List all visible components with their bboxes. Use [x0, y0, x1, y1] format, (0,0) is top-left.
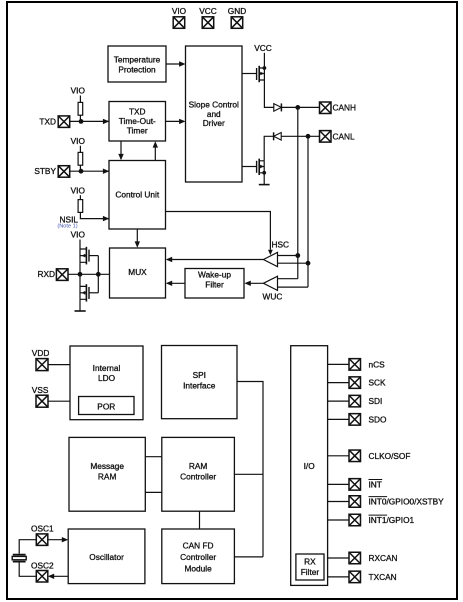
svg-text:VCC: VCC: [254, 43, 272, 53]
svg-text:SDO: SDO: [369, 415, 388, 425]
wire HSC out to MUX: [167, 259, 263, 261]
svg-text:VIO: VIO: [71, 136, 86, 146]
pin TXD: [58, 116, 69, 128]
block SPI Interface: [162, 346, 238, 419]
block Temperature Protection: [108, 46, 166, 82]
wire CU up to timer: [154, 143, 156, 161]
pin OSC2: [36, 571, 48, 583]
ground low-side driver: [259, 184, 270, 186]
pin CANH: [320, 102, 332, 114]
svg-text:VIO: VIO: [71, 185, 86, 195]
wire WUC input from CANL sense: [278, 286, 309, 288]
resistor R NSIL pullup: [78, 200, 83, 213]
wire VSS to LDO: [48, 400, 70, 402]
junction Q4 body tie: [262, 171, 266, 175]
svg-text:VDD: VDD: [32, 348, 50, 358]
junction CANH node: [295, 105, 300, 110]
diode D1: [274, 103, 282, 111]
diode D2: [274, 132, 282, 140]
pin VDD: [36, 359, 48, 371]
svg-text:Driver: Driver: [203, 118, 225, 128]
transistor Q2 NMOS RXD driver: [80, 284, 98, 301]
svg-text:POR: POR: [97, 401, 115, 411]
svg-text:I/O: I/O: [304, 461, 316, 471]
arrowhead hsc into MUX: [166, 257, 172, 262]
svg-text:Timer: Timer: [127, 125, 148, 135]
wire VIO to PMOS source: [79, 240, 81, 250]
arrowhead timer into slope control: [179, 119, 185, 124]
svg-text:RX: RX: [304, 557, 316, 567]
pin RXCAN: [349, 552, 361, 564]
wire R1 to TXD node: [79, 115, 81, 121]
wire slope to Q4 gate: [242, 166, 257, 168]
arrowhead into timer bottom: [153, 141, 158, 147]
svg-text:Controller: Controller: [180, 471, 216, 481]
block Control Unit: [109, 161, 166, 230]
overline INT1/GPIO1: [369, 514, 388, 516]
svg-text:CANL: CANL: [333, 131, 356, 141]
wire spi bus vertical: [237, 382, 263, 557]
block TXD Time-Out-Timer: [109, 102, 166, 142]
svg-text:Oscillator: Oscillator: [89, 552, 124, 562]
wire OSC1 to oscillator: [48, 539, 67, 541]
svg-text:OSC2: OSC2: [31, 560, 54, 570]
wire crystal to OSC2: [19, 562, 36, 576]
wire timer to slope control: [166, 120, 185, 122]
wire WUC input from CANH sense: [278, 278, 298, 280]
pin SDI: [349, 395, 361, 407]
wire oscillator to OSC2: [49, 575, 68, 577]
svg-text:Internal: Internal: [93, 363, 121, 373]
svg-text:RXD: RXD: [37, 269, 55, 279]
svg-text:OSC1: OSC1: [31, 524, 54, 534]
wire HSC input from CANH sense: [278, 255, 298, 257]
svg-text:VIO: VIO: [172, 6, 187, 16]
arrowhead wuf into MUX: [166, 281, 172, 286]
wire I/O to SDI: [328, 400, 349, 402]
wire Q4 source to ground: [263, 173, 265, 185]
wire timer down to CU: [120, 141, 122, 159]
svg-text:RAM: RAM: [98, 471, 117, 481]
svg-text:SPI: SPI: [193, 370, 206, 380]
svg-text:CLKO/SOF: CLKO/SOF: [369, 451, 411, 461]
svg-text:CANH: CANH: [333, 103, 357, 113]
wire CANL sense line: [307, 136, 309, 287]
block Oscillator: [68, 529, 145, 584]
pin INT: [349, 479, 361, 491]
svg-text:STBY: STBY: [34, 166, 56, 176]
junction RXD drain node: [78, 272, 83, 277]
wire I/O to INT0/GPIO0/XSTBY: [328, 501, 349, 503]
svg-text:TXCAN: TXCAN: [369, 572, 397, 582]
block RX Filter: [296, 554, 324, 580]
svg-text:Controller: Controller: [180, 552, 216, 562]
pin CLKO/SOF: [349, 450, 361, 462]
svg-text:Wake-up: Wake-up: [198, 270, 231, 280]
wire I/O to INT1/GPIO1: [328, 519, 349, 521]
svg-text:Module: Module: [184, 563, 212, 573]
arrowhead into slope control: [179, 61, 185, 66]
svg-text:Filter: Filter: [205, 280, 224, 290]
svg-text:Control Unit: Control Unit: [115, 190, 160, 200]
svg-text:GND: GND: [228, 6, 246, 16]
arrowhead into MUX top: [135, 241, 140, 247]
svg-text:Interface: Interface: [183, 381, 216, 391]
wire VIO to R2: [79, 146, 81, 153]
block MUX: [110, 248, 166, 298]
svg-text:VCC: VCC: [199, 6, 217, 16]
svg-text:SDI: SDI: [369, 396, 383, 406]
ground RXD driver: [75, 310, 86, 312]
junction RXD gate node: [96, 272, 101, 277]
block CAN FD Controller Module: [162, 529, 235, 584]
resistor R STBY pullup: [78, 152, 83, 165]
pin SDO: [349, 414, 361, 426]
svg-text:WUC: WUC: [263, 292, 283, 302]
wire OSC1 to crystal: [19, 540, 36, 554]
wire CU down to MUX: [136, 229, 138, 246]
pin VIO: [173, 17, 185, 29]
pin RXD: [56, 269, 68, 281]
svg-text:INT0/GPIO0/XSTBY: INT0/GPIO0/XSTBY: [369, 497, 445, 507]
svg-text:INT: INT: [369, 480, 382, 490]
pin SCK: [349, 377, 361, 389]
arrowhead wuc into wuf: [244, 281, 250, 286]
pin OSC1: [36, 534, 48, 546]
wire canfd to bus: [234, 556, 263, 558]
svg-text:RXCAN: RXCAN: [369, 553, 398, 563]
wire ramctrl to canfd: [199, 511, 201, 529]
block Slope Control and Driver: [186, 46, 243, 182]
pin INT1/GPIO1: [349, 514, 361, 526]
wire Q4 drain to CANL: [264, 136, 319, 161]
wire VIO to R1: [79, 96, 81, 103]
wire I/O to CLKO/SOF: [328, 455, 349, 457]
pin VCC: [202, 17, 214, 29]
wire ramctrl to bus: [234, 473, 263, 475]
transistor Q3 high-side driver: [257, 66, 265, 82]
wire I/O to SCK: [328, 382, 349, 384]
svg-text:Message: Message: [90, 461, 124, 471]
resistor R TXD pullup: [78, 102, 83, 115]
svg-text:Protection: Protection: [118, 65, 156, 75]
svg-text:Temperature: Temperature: [114, 55, 161, 65]
junction STBY node: [79, 169, 84, 174]
junction Q3 body tie: [263, 66, 267, 70]
wire PMOS drain to RXD node: [79, 262, 81, 274]
pin VSS: [36, 395, 48, 407]
wire CANH sense line: [297, 107, 299, 278]
wire TXD to timer: [70, 120, 109, 122]
junction CANL sense tap: [306, 261, 311, 266]
wire CU to HSC enable: [166, 212, 271, 250]
svg-text:VIO: VIO: [71, 86, 86, 96]
wire VCC to PMOS: [263, 53, 265, 68]
crystal X1: [12, 555, 26, 562]
wire I/O to nCS: [328, 363, 349, 365]
wire VIO to R3: [79, 195, 81, 199]
svg-text:LDO: LDO: [98, 373, 116, 383]
wire RXD node to NMOS drain: [79, 274, 81, 286]
pin CANL: [320, 131, 332, 143]
wire messageram ramctrl upper: [145, 456, 162, 458]
pin STBY: [58, 166, 69, 178]
svg-text:VSS: VSS: [32, 385, 49, 395]
wire HSC input from CANL sense: [278, 262, 309, 264]
wire I/O to RXCAN: [328, 557, 349, 559]
svg-text:CAN FD: CAN FD: [183, 540, 214, 550]
wire STBY to control unit: [70, 170, 109, 172]
junction TXD node: [79, 119, 84, 124]
wire Q3 drain to CANH: [264, 80, 319, 107]
svg-text:VIO: VIO: [71, 230, 86, 240]
svg-text:INT1/GPIO1: INT1/GPIO1: [369, 515, 415, 525]
overline INT: [369, 479, 383, 481]
wire I/O to INT: [328, 483, 349, 485]
pin GND: [231, 17, 243, 29]
arrowhead STBY into control unit: [103, 169, 109, 174]
transistor Q1 PMOS RXD driver: [80, 247, 98, 265]
block Internal LDO: [70, 346, 143, 420]
arrowhead NSIL into control unit: [103, 216, 109, 221]
wire TempProt to SlopeControl: [166, 63, 184, 65]
block RAM Controller: [162, 437, 235, 511]
svg-text:nCS: nCS: [369, 360, 386, 370]
wire wakeup filter to MUX: [167, 282, 185, 284]
block I/O: [291, 346, 328, 586]
pin TXCAN: [349, 571, 361, 583]
arrowhead into CU top: [118, 154, 123, 160]
svg-text:HSC: HSC: [272, 240, 290, 250]
wire gate bus Q1 Q2: [97, 256, 99, 293]
wire VDD to LDO: [48, 364, 70, 366]
comparator HSC: [263, 240, 289, 267]
wire RXD wire to MUX: [68, 273, 110, 275]
junction CANL node: [306, 134, 311, 139]
junction CANH sense tap: [295, 253, 300, 258]
wire WUC out to wakeup filter: [246, 282, 264, 284]
wire slope to Q3 gate: [242, 73, 257, 75]
wire NMOS source to ground: [79, 299, 81, 311]
arrowhead into TXD timer: [103, 119, 109, 124]
svg-text:MUX: MUX: [128, 267, 147, 277]
wire I/O to TXCAN: [328, 576, 349, 578]
arrowhead osc1 into oscillator: [62, 537, 68, 542]
block Message RAM: [69, 437, 145, 511]
block POR: [79, 397, 134, 415]
pin nCS: [349, 359, 361, 371]
block Wake-up Filter: [185, 269, 244, 299]
arrowhead enable into HSC: [268, 250, 273, 255]
svg-text:TXD: TXD: [39, 116, 56, 126]
svg-text:RAM: RAM: [189, 461, 208, 471]
svg-text:Filter: Filter: [301, 567, 320, 577]
pin INT0/GPIO0/XSTBY: [349, 496, 361, 508]
transistor Q4 low-side driver: [257, 159, 265, 175]
svg-text:SCK: SCK: [369, 378, 387, 388]
wire messageram ramctrl lower: [145, 491, 162, 493]
arrowhead into OSC2: [48, 574, 54, 579]
comparator WUC: [263, 276, 283, 301]
wire I/O to SDO: [328, 418, 349, 420]
wire R3 to control unit: [80, 212, 108, 218]
overline INT0/GPIO0/XSTBY: [369, 496, 388, 498]
wire R2 to STBY node: [79, 165, 81, 171]
